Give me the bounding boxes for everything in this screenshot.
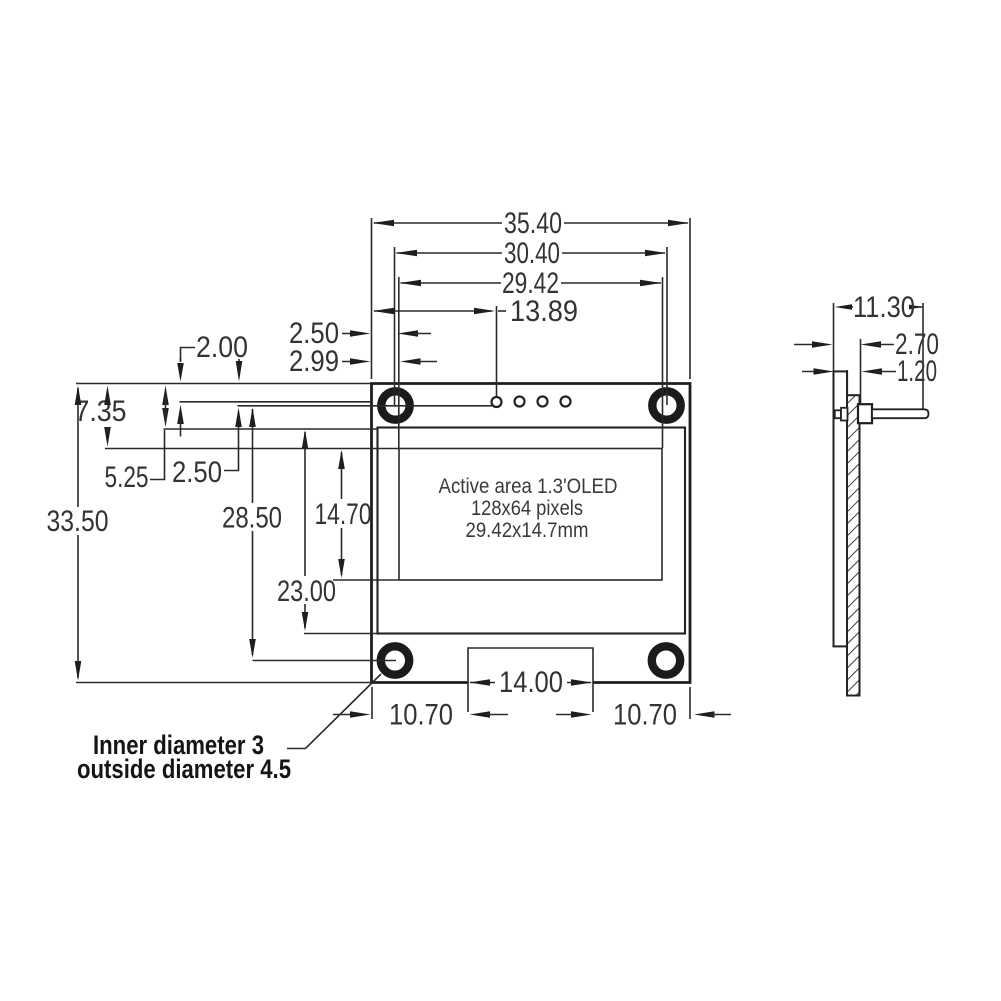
side ext pcb-left short xyxy=(846,370,848,395)
side ext line right of pcb xyxy=(860,339,862,404)
hole-center line D (2.50 ref) xyxy=(238,405,493,407)
dim 11.30 xyxy=(834,291,924,409)
active top extension line E xyxy=(105,448,399,450)
mounting hole top-left xyxy=(381,391,409,419)
dim 33.50 xyxy=(47,386,109,681)
svg-text:5.25: 5.25 xyxy=(105,461,149,494)
svg-text:33.50: 33.50 xyxy=(47,505,109,538)
pin hole 2 xyxy=(515,397,525,407)
svg-text:10.70: 10.70 xyxy=(389,699,453,732)
label 2.50 top-left xyxy=(289,317,431,350)
glass panel rect xyxy=(378,428,686,634)
dim 1.20 xyxy=(802,355,937,388)
glass bottom extension xyxy=(304,633,378,635)
pin hole 4 xyxy=(561,397,571,407)
dim 2.00 leader and arrows xyxy=(177,331,248,437)
dim 13.89 xyxy=(373,295,578,397)
svg-text:13.89: 13.89 xyxy=(510,295,578,328)
svg-text:14.70: 14.70 xyxy=(315,498,372,531)
dim 28.50 xyxy=(222,408,396,661)
svg-text:outside diameter 4.5: outside diameter 4.5 xyxy=(77,754,291,784)
pin bar xyxy=(872,409,929,418)
svg-text:2.99: 2.99 xyxy=(289,345,339,378)
svg-text:14.00: 14.00 xyxy=(499,666,563,699)
PCB bottom edge extension xyxy=(76,682,372,684)
dim 23.00 xyxy=(277,430,336,631)
svg-text:23.00: 23.00 xyxy=(277,575,336,608)
svg-text:Active area 1.3'OLED: Active area 1.3'OLED xyxy=(439,475,618,498)
dim 29.42 xyxy=(399,267,663,448)
pin hole 3 xyxy=(538,397,548,407)
dim 7.35 xyxy=(75,386,127,447)
dim 5.25 arrows xyxy=(105,386,169,495)
dim 10.70 left xyxy=(333,699,508,732)
svg-text:10.70: 10.70 xyxy=(613,699,677,732)
pin housing xyxy=(858,404,872,423)
pin left tab xyxy=(835,410,841,418)
bottom extension stubs xyxy=(371,687,373,719)
svg-text:30.40: 30.40 xyxy=(504,237,560,270)
dim 30.40 xyxy=(395,237,668,405)
leader to bottom-left hole xyxy=(287,674,381,749)
active area rect xyxy=(399,449,662,581)
mounting hole top-right xyxy=(652,391,680,419)
glass side strip xyxy=(834,371,848,646)
mounting hole bottom-left xyxy=(381,646,409,674)
svg-text:1.20: 1.20 xyxy=(897,355,937,388)
svg-text:29.42x14.7mm: 29.42x14.7mm xyxy=(466,519,589,542)
svg-text:28.50: 28.50 xyxy=(222,502,282,535)
glass top extension line C xyxy=(164,428,378,430)
label 2.50 second with leader xyxy=(172,408,242,490)
PCB front outline xyxy=(372,384,691,683)
dim 35.40 xyxy=(372,207,691,379)
hole-center line B (2.00 ref) xyxy=(180,401,372,403)
svg-text:2.00: 2.00 xyxy=(196,331,248,364)
connector notch box xyxy=(468,648,593,712)
dim 14.70 xyxy=(315,450,372,578)
dim 2.70 xyxy=(794,328,939,361)
label 2.99 xyxy=(289,345,437,378)
mounting hole bottom-right xyxy=(652,646,680,674)
svg-text:7.35: 7.35 xyxy=(75,395,127,428)
svg-text:35.40: 35.40 xyxy=(504,207,562,240)
PCB side strip hatched xyxy=(847,395,860,695)
pin hole 1 xyxy=(492,397,502,407)
dim 14.00 xyxy=(469,666,592,699)
svg-text:2.50: 2.50 xyxy=(172,456,222,489)
svg-text:128x64 pixels: 128x64 pixels xyxy=(471,497,583,520)
svg-text:11.30: 11.30 xyxy=(853,291,915,324)
PCB top edge extension xyxy=(76,383,372,385)
active bottom extension xyxy=(333,579,399,581)
dim 10.70 right xyxy=(556,699,731,732)
